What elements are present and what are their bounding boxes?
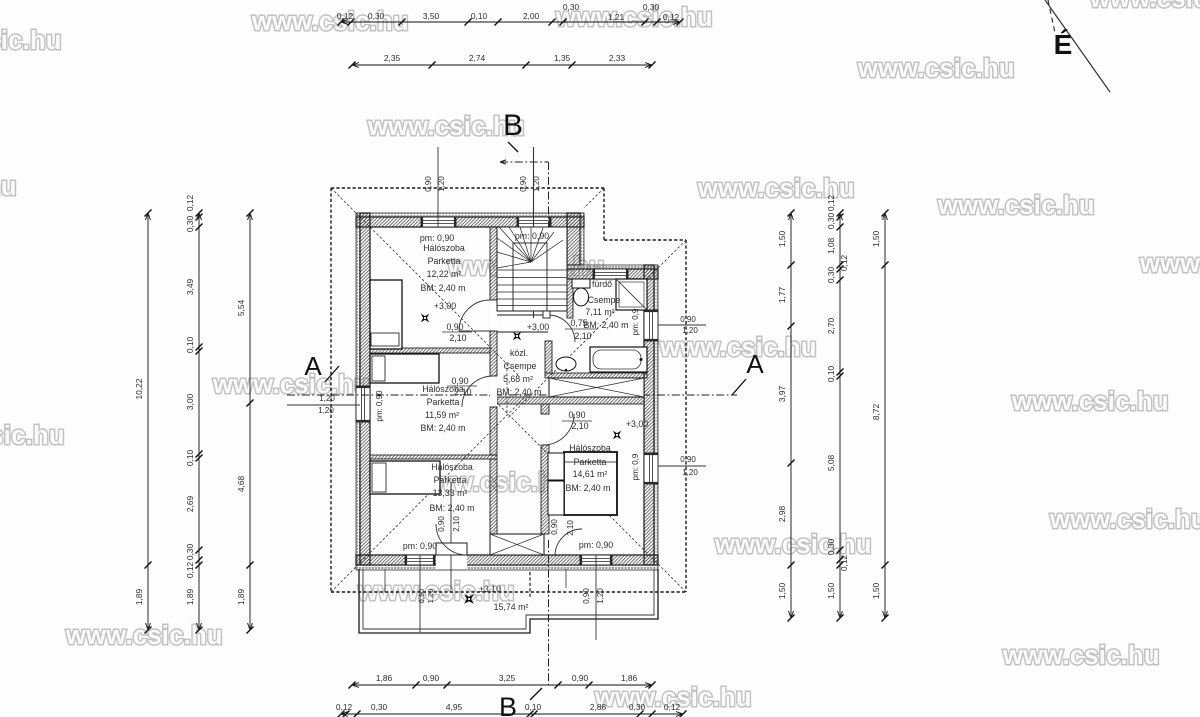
svg-text:2,10: 2,10 <box>571 421 588 431</box>
svg-text:BM: 2,40 m: BM: 2,40 m <box>584 320 629 330</box>
svg-text:0,30: 0,30 <box>826 539 836 556</box>
svg-text:0,30: 0,30 <box>629 702 646 712</box>
dimension row bottom 2 <box>341 713 683 715</box>
svg-text:A: A <box>746 349 764 379</box>
svg-text:www.csic.hu: www.csic.hu <box>714 531 872 559</box>
door arc + labels bedroom4 lower <box>550 519 582 556</box>
terrace door leaf + arc <box>436 524 467 555</box>
svg-text:0,90: 0,90 <box>417 589 426 604</box>
left window leader 1.20/1.20 <box>287 394 360 415</box>
hallway floor step line <box>497 331 548 333</box>
svg-text:0,10: 0,10 <box>471 11 488 21</box>
terrace door axis x=451 <box>437 482 461 590</box>
interior partition: bedroom2/bedroom3 <box>370 455 497 459</box>
svg-text:B: B <box>499 692 517 717</box>
svg-text:0,10: 0,10 <box>525 702 542 712</box>
dimension row top 2 <box>352 64 652 66</box>
svg-text:5,54: 5,54 <box>236 300 246 317</box>
labels bedroom2 (11.59) <box>375 384 465 433</box>
svg-text:2,70: 2,70 <box>826 318 836 335</box>
toilet <box>572 279 590 306</box>
svg-text:0,10: 0,10 <box>826 366 836 383</box>
window: top wall stairs <box>517 217 551 227</box>
svg-text:2,33: 2,33 <box>609 53 626 63</box>
svg-text:B: B <box>503 109 523 142</box>
svg-text:www.csic.hu: www.csic.hu <box>1049 506 1200 534</box>
svg-text:0,12: 0,12 <box>185 562 195 579</box>
svg-text:1,50: 1,50 <box>777 231 787 248</box>
svg-text:0,12: 0,12 <box>664 702 681 712</box>
svg-text:3,00: 3,00 <box>185 394 195 411</box>
svg-text:0,10: 0,10 <box>185 450 195 467</box>
svg-text:www.csic.hu: www.csic.hu <box>1139 250 1200 278</box>
window: left wall bedroom2 <box>356 386 370 422</box>
svg-text:pm: 0,9: pm: 0,9 <box>631 453 640 480</box>
svg-text:www.csic.hu: www.csic.hu <box>367 113 525 141</box>
svg-text:0,30: 0,30 <box>563 2 580 12</box>
svg-text:1,50: 1,50 <box>826 583 836 600</box>
svg-text:www.csic.hu: www.csic.hu <box>1089 0 1200 13</box>
door: bedroom2 (11.59) <box>462 376 497 407</box>
door labels bedroom2 <box>447 376 477 397</box>
svg-text:5,68 m²: 5,68 m² <box>503 374 533 384</box>
svg-text:1,89: 1,89 <box>185 589 195 606</box>
svg-text:1,89: 1,89 <box>236 589 246 606</box>
svg-text:0,30: 0,30 <box>643 2 660 12</box>
window: top wall bedroom1 <box>421 217 456 227</box>
svg-text:pm: 0,9: pm: 0,9 <box>631 308 640 335</box>
svg-text:2,98: 2,98 <box>777 506 787 523</box>
svg-text:1,50: 1,50 <box>871 583 881 600</box>
interior wall: stair/bathroom <box>567 279 573 318</box>
svg-text:12,22 m²: 12,22 m² <box>427 269 462 279</box>
dimension col right 3 <box>884 213 886 618</box>
interior partition: bedroom1/bedroom2 <box>370 348 490 353</box>
closet box with X (bottom strip) <box>490 534 544 555</box>
svg-text:BM: 2,40 m: BM: 2,40 m <box>421 423 466 433</box>
terrace extension lines <box>565 569 567 588</box>
svg-text:0,90: 0,90 <box>519 176 528 192</box>
right window leader 0.90/1.20 (bedroom4) <box>658 455 706 477</box>
terrace labels <box>479 584 528 612</box>
svg-text:11,59 m²: 11,59 m² <box>425 410 459 420</box>
interior wall: strip/bedroom4 (vertical x=541) <box>541 404 549 534</box>
svg-text:0,12: 0,12 <box>839 555 849 572</box>
svg-text:2,35: 2,35 <box>384 53 401 63</box>
svg-text:Hálószoba: Hálószoba <box>422 384 464 394</box>
svg-text:0,90: 0,90 <box>680 315 696 324</box>
bathroom door labels 0.75/2.10 <box>565 318 597 341</box>
svg-text:1,86: 1,86 <box>621 673 638 683</box>
svg-text:Csempe: Csempe <box>504 361 537 371</box>
window: bottom wall bedroom3 <box>405 555 435 565</box>
door: bedroom1 (12.22) <box>459 300 497 331</box>
svg-text:Parketta: Parketta <box>434 475 467 485</box>
labels bathroom <box>584 279 629 330</box>
hallway +3.00 <box>527 322 549 332</box>
labels bedroom1 (12.22) <box>420 233 466 311</box>
svg-text:1,20: 1,20 <box>532 176 541 192</box>
svg-text:pm: 0,90: pm: 0,90 <box>403 541 437 551</box>
svg-text:1,35: 1,35 <box>554 53 571 63</box>
bottom window axis x=596 <box>582 555 605 640</box>
shower tray <box>616 279 647 310</box>
svg-text:0,90: 0,90 <box>582 588 591 604</box>
rotated pm labels right wall <box>631 308 640 480</box>
svg-text:15,74 m²: 15,74 m² <box>494 602 529 612</box>
svg-text:BM: 2,40 m: BM: 2,40 m <box>421 283 466 293</box>
svg-text:A: A <box>304 351 322 381</box>
svg-text:1,20: 1,20 <box>318 406 334 415</box>
svg-text:Csempe: Csempe <box>588 295 621 305</box>
svg-text:Hálószoba: Hálószoba <box>431 462 473 472</box>
svg-text:13,33 m²: 13,33 m² <box>433 488 468 498</box>
svg-text:Parketta: Parketta <box>427 397 460 407</box>
svg-text:Parketta: Parketta <box>574 457 607 467</box>
window: right wall bathroom <box>644 310 658 341</box>
svg-text:1,20: 1,20 <box>682 326 698 335</box>
svg-text:BM: 2,40 m: BM: 2,40 m <box>430 503 475 513</box>
svg-text:0,30: 0,30 <box>371 702 388 712</box>
dimension col left 1 <box>147 213 149 630</box>
svg-text:Hálószoba: Hálószoba <box>569 443 611 453</box>
svg-text:1,20: 1,20 <box>319 394 335 403</box>
interior wall: bedroom/stair + hallway (vertical x=490) <box>490 227 497 534</box>
interior wall: below closet box <box>497 397 644 404</box>
door: bathroom (0.75) <box>545 315 575 342</box>
svg-text:±3,10: ±3,10 <box>479 584 501 594</box>
svg-text:0,12: 0,12 <box>839 255 849 272</box>
terrace outline <box>359 569 658 633</box>
svg-text:0,90: 0,90 <box>680 455 696 464</box>
svg-text:www.csic.hu: www.csic.hu <box>0 422 65 450</box>
stair bottom edge <box>497 310 567 312</box>
svg-text:0,30: 0,30 <box>185 216 195 233</box>
window: bathroom wing top <box>593 269 628 279</box>
svg-text:1,20: 1,20 <box>437 176 446 192</box>
roof hip lines (dashed) <box>331 188 686 592</box>
svg-text:www.csic.hu: www.csic.hu <box>0 27 62 55</box>
north arrow <box>1045 0 1110 92</box>
stairs <box>497 227 567 318</box>
svg-text:1,89: 1,89 <box>134 589 144 606</box>
bed bedroom3 <box>370 461 440 494</box>
labels bedroom4 (14.61) <box>566 443 614 550</box>
svg-text:Parketta: Parketta <box>428 256 461 266</box>
svg-text:1,20: 1,20 <box>426 589 435 604</box>
svg-text:pm: 0,90: pm: 0,90 <box>375 390 384 422</box>
svg-text:0,30: 0,30 <box>185 544 195 561</box>
closet box with X (bathroom south) <box>549 378 644 397</box>
svg-text:3,97: 3,97 <box>777 386 787 403</box>
svg-text:közl.: közl. <box>510 348 528 358</box>
exterior wall: east wall of stair block <box>567 213 584 265</box>
dimension col left 3 <box>249 213 251 630</box>
svg-text:BM: 2,40 m: BM: 2,40 m <box>497 387 542 397</box>
svg-text:0,12: 0,12 <box>336 702 353 712</box>
svg-text:+3,00: +3,00 <box>626 419 648 429</box>
terrace door opening <box>436 555 467 569</box>
svg-text:www.csic.hu: www.csic.hu <box>1011 388 1169 416</box>
bed bedroom1 <box>370 280 402 349</box>
svg-text:1,08: 1,08 <box>826 238 836 255</box>
svg-text:1,50: 1,50 <box>871 231 881 248</box>
svg-text:www.csic.hu: www.csic.hu <box>937 192 1095 220</box>
svg-text:8,72: 8,72 <box>871 404 881 421</box>
svg-text:3,50: 3,50 <box>423 11 440 21</box>
closets bedroom4 <box>548 453 564 515</box>
svg-text:+3,00: +3,00 <box>434 301 456 311</box>
svg-text:0,30: 0,30 <box>368 11 385 21</box>
svg-text:2,00: 2,00 <box>523 11 540 21</box>
svg-text:0,12: 0,12 <box>663 12 680 22</box>
svg-text:pm: 0,90: pm: 0,90 <box>579 540 613 550</box>
svg-text:0,30: 0,30 <box>826 267 836 284</box>
dimension col right 1 <box>790 213 792 618</box>
svg-text:www.csic.hu: www.csic.hu <box>1002 642 1160 670</box>
exterior wall: right <box>644 265 658 565</box>
section line B-B <box>499 109 549 717</box>
svg-text:4,95: 4,95 <box>446 702 463 712</box>
svg-text:3,49: 3,49 <box>185 279 195 296</box>
door labels bedroom1 <box>442 322 472 343</box>
terrace window axis x=420 <box>417 555 435 632</box>
svg-text:1,50: 1,50 <box>777 583 787 600</box>
svg-text:1,20: 1,20 <box>596 588 605 604</box>
window axis line x=438 <box>424 147 446 227</box>
svg-text:0,90: 0,90 <box>568 410 585 420</box>
svg-text:0,90: 0,90 <box>446 322 463 332</box>
window: bottom wall bedroom4 <box>580 555 612 565</box>
window: right wall bedroom4 <box>644 453 658 484</box>
section line A-A <box>287 349 764 395</box>
bed bedroom2 <box>370 354 439 383</box>
interior wall: bathroom south <box>545 373 647 378</box>
right window leader 0.90/1.20 (bathroom) <box>658 315 706 335</box>
bathtub <box>590 347 647 372</box>
svg-text:2,74: 2,74 <box>469 53 486 63</box>
svg-text:7,11 m²: 7,11 m² <box>585 307 614 317</box>
dimension row top 1 <box>341 21 680 23</box>
svg-text:0,30: 0,30 <box>826 213 836 230</box>
exterior wall: top (masonry + insulation dots) <box>356 213 584 227</box>
dimension col right 2 <box>839 213 841 618</box>
labels hallway <box>497 348 542 397</box>
svg-text:Hálószoba: Hálószoba <box>423 243 465 253</box>
svg-text:0,10: 0,10 <box>185 337 195 354</box>
double bed bedroom4 <box>564 452 617 515</box>
door labels bedroom4 <box>562 410 592 431</box>
svg-text:fürdő: fürdő <box>592 279 612 289</box>
svg-text:2,10: 2,10 <box>566 520 575 536</box>
svg-text:1,21: 1,21 <box>608 12 625 22</box>
svg-text:1,77: 1,77 <box>777 287 787 304</box>
svg-text:14,61 m²: 14,61 m² <box>573 469 608 479</box>
svg-text:0,90: 0,90 <box>572 673 589 683</box>
svg-text:0,75: 0,75 <box>570 318 587 328</box>
svg-text:BM: 2,40 m: BM: 2,40 m <box>566 483 611 493</box>
svg-text:2,10: 2,10 <box>449 333 466 343</box>
svg-text:É: É <box>1054 29 1073 60</box>
svg-text:2,88: 2,88 <box>590 702 607 712</box>
svg-text:2,10: 2,10 <box>574 331 591 341</box>
svg-text:0,90: 0,90 <box>550 519 559 535</box>
window axis line x=533.5 (through stairs) <box>519 147 541 318</box>
svg-text:pm: 0,90: pm: 0,90 <box>515 231 549 241</box>
svg-text:www.csic.hu: www.csic.hu <box>659 334 817 362</box>
svg-text:1,86: 1,86 <box>376 673 393 683</box>
svg-text:0,90: 0,90 <box>437 516 446 532</box>
svg-text:1,20: 1,20 <box>682 468 698 477</box>
exterior wall: bottom <box>356 555 658 570</box>
interior wall: hallway/bathroom (vertical x=545) <box>545 341 552 373</box>
dimension row bottom 1 <box>352 684 652 686</box>
svg-text:0,90: 0,90 <box>423 673 440 683</box>
eaves outline (dashed) <box>331 188 686 592</box>
svg-text:10,22: 10,22 <box>134 378 144 399</box>
washbasin <box>556 357 576 371</box>
svg-text:4,68: 4,68 <box>236 476 246 493</box>
exterior wall: bathroom wing top <box>567 265 658 279</box>
svg-text:2,10: 2,10 <box>452 516 461 532</box>
dimension col left 2 <box>198 213 200 630</box>
svg-text:0,12: 0,12 <box>337 11 354 21</box>
svg-text:0,12: 0,12 <box>826 195 836 212</box>
svg-text:0,90: 0,90 <box>424 176 433 192</box>
svg-text:3,25: 3,25 <box>499 673 516 683</box>
exterior wall: left <box>356 213 370 565</box>
svg-text:www.csic.hu: www.csic.hu <box>0 173 17 201</box>
labels bedroom3 (13.33) <box>403 462 475 551</box>
door: bedroom4 (14.61) <box>541 414 574 445</box>
svg-text:pm: 0,90: pm: 0,90 <box>420 233 454 243</box>
svg-text:www.csic.hu: www.csic.hu <box>857 55 1015 83</box>
svg-text:+3,00: +3,00 <box>527 322 549 332</box>
svg-text:0,12: 0,12 <box>185 195 195 212</box>
terrace step dashed continuation <box>529 572 531 598</box>
svg-text:5,08: 5,08 <box>826 455 836 472</box>
svg-text:2,69: 2,69 <box>185 496 195 513</box>
